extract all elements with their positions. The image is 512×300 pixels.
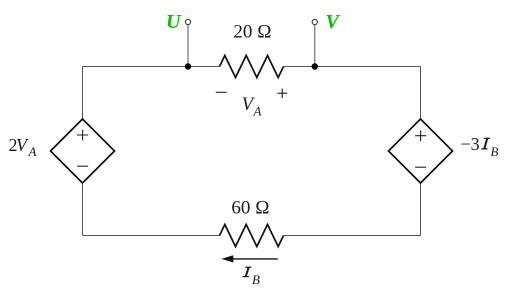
- svg-text:20 Ω: 20 Ω: [233, 22, 271, 43]
- svg-text:V: V: [16, 135, 29, 155]
- svg-text:−3: −3: [461, 134, 480, 154]
- svg-text:B: B: [491, 144, 499, 159]
- svg-text:B: B: [252, 272, 260, 287]
- svg-text:U: U: [166, 11, 182, 33]
- svg-text:60 Ω: 60 Ω: [231, 198, 269, 219]
- svg-text:A: A: [253, 104, 262, 119]
- svg-text:A: A: [28, 144, 37, 159]
- svg-text:V: V: [326, 11, 341, 33]
